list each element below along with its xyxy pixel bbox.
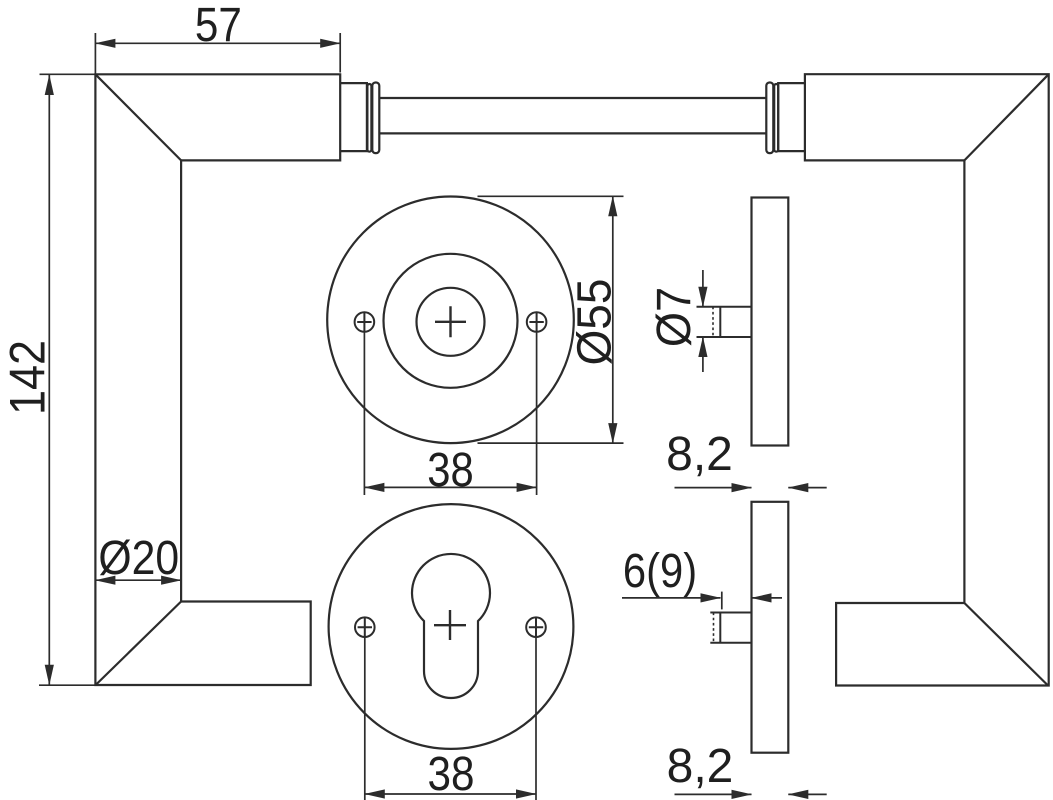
- svg-text:38: 38: [427, 442, 473, 496]
- svg-text:6(9): 6(9): [623, 543, 697, 597]
- svg-text:57: 57: [195, 0, 242, 51]
- svg-text:Ø55: Ø55: [567, 278, 621, 365]
- svg-text:142: 142: [0, 340, 56, 415]
- svg-text:8,2: 8,2: [667, 740, 734, 793]
- svg-text:Ø7: Ø7: [647, 287, 701, 347]
- svg-text:8,2: 8,2: [666, 428, 733, 481]
- svg-text:Ø20: Ø20: [98, 531, 179, 585]
- svg-text:38: 38: [428, 746, 475, 800]
